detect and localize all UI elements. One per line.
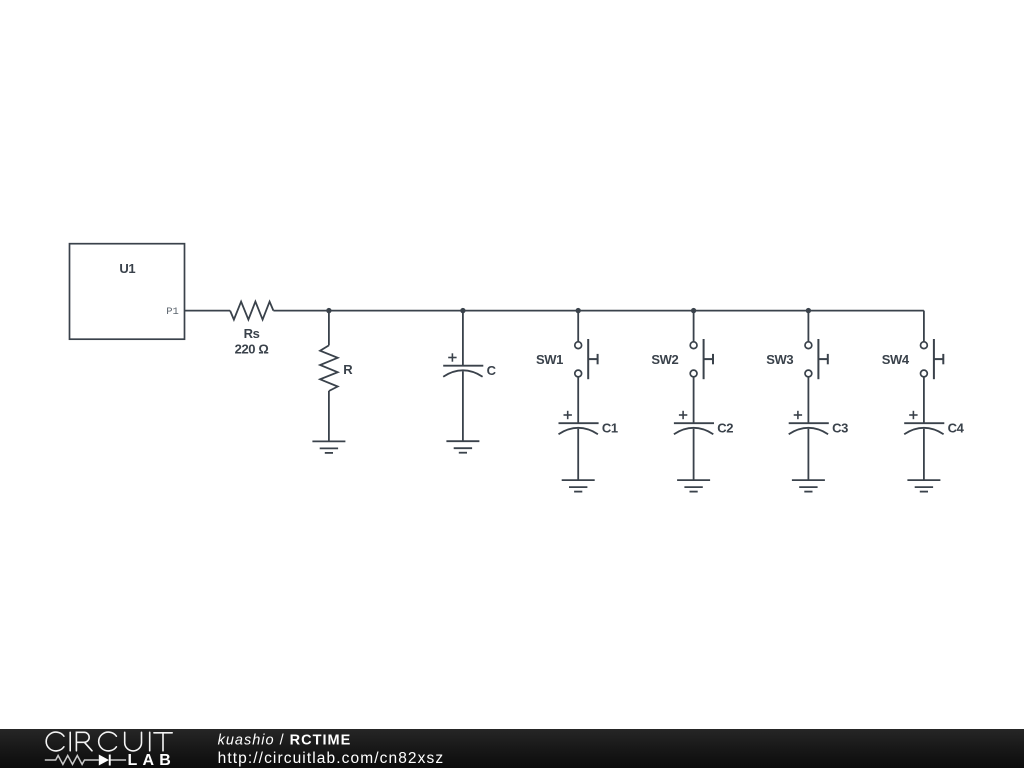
- svg-text:C1: C1: [602, 421, 618, 436]
- ground (C3 branch): [792, 480, 825, 492]
- pushbutton switch SW2: [690, 342, 697, 377]
- capacitor C1 curved bottom plate: [559, 428, 598, 434]
- svg-text:R: R: [343, 362, 353, 377]
- capacitor C2 plus sign: [679, 411, 687, 419]
- wire node SW1 to node SW2: [578, 310, 693, 312]
- wire C3 to ground: [807, 429, 809, 480]
- ground (C1 branch): [562, 480, 595, 492]
- capacitor C3 top plate: [789, 422, 829, 424]
- CircuitLab logo resistor-diode glyph: [45, 756, 126, 765]
- wire node to switch SW1: [577, 311, 579, 342]
- resistor Rs: [230, 302, 273, 320]
- junction node at R branch: [326, 308, 331, 313]
- wire SW3 to C3: [807, 377, 809, 423]
- svg-text:U1: U1: [119, 261, 135, 276]
- svg-text:C4: C4: [948, 421, 965, 436]
- wire Rs to node R: [273, 310, 329, 312]
- svg-text:Rs: Rs: [244, 326, 260, 341]
- svg-text:220 Ω: 220 Ω: [235, 342, 269, 357]
- capacitor C4 top plate: [904, 422, 944, 424]
- capacitor C3 curved bottom plate: [789, 428, 828, 434]
- svg-text:SW1: SW1: [536, 352, 563, 367]
- svg-text:http://circuitlab.com/cn82xsz: http://circuitlab.com/cn82xsz: [218, 750, 445, 767]
- wire C2 to ground: [693, 429, 695, 480]
- wire node to switch SW2: [693, 311, 695, 342]
- ground (C4 branch): [907, 480, 940, 492]
- wire node to switch SW4: [923, 311, 925, 342]
- resistor R: [320, 345, 338, 391]
- wire C to ground: [462, 371, 464, 441]
- capacitor C3 plus sign: [794, 411, 802, 419]
- svg-text:SW4: SW4: [882, 352, 910, 367]
- capacitor C1 plus sign: [564, 411, 572, 419]
- capacitor C1 top plate: [559, 422, 599, 424]
- wire SW1 to C1: [577, 377, 579, 423]
- IC U1: [70, 244, 185, 340]
- capacitor C top plate: [443, 365, 483, 367]
- capacitor C2 top plate: [674, 422, 714, 424]
- junction node at SW3 branch: [806, 308, 811, 313]
- capacitor C4 plus sign: [909, 411, 917, 419]
- wire SW2 to C2: [693, 377, 695, 423]
- capacitor C4 curved bottom plate: [904, 428, 943, 434]
- wire C4 to ground: [923, 429, 925, 480]
- wire node to switch SW3: [807, 311, 809, 342]
- wire pin P1 to Rs: [185, 310, 231, 312]
- svg-text:SW3: SW3: [766, 352, 793, 367]
- svg-text:SW2: SW2: [651, 352, 678, 367]
- junction node at SW1 branch: [576, 308, 581, 313]
- junction node at C branch: [460, 308, 465, 313]
- wire SW4 to C4: [923, 377, 925, 423]
- junction node at SW2 branch: [691, 308, 696, 313]
- wire node R to node C: [329, 310, 463, 312]
- pushbutton switch SW1: [575, 342, 582, 377]
- svg-text:C2: C2: [717, 421, 733, 436]
- wire node SW3 to SW4 corner: [808, 310, 924, 312]
- CircuitLab logo text CIRCUIT: [46, 732, 172, 751]
- wire node SW2 to node SW3: [694, 310, 809, 312]
- capacitor C plus sign: [448, 353, 456, 361]
- capacitor C2 curved bottom plate: [674, 428, 713, 434]
- wire node to resistor R: [328, 311, 330, 346]
- ground (R branch): [312, 441, 345, 453]
- svg-text:C3: C3: [832, 421, 848, 436]
- svg-text:C: C: [487, 363, 497, 378]
- ground (C branch): [446, 441, 479, 453]
- svg-text:LAB: LAB: [128, 752, 176, 768]
- wire C1 to ground: [577, 429, 579, 480]
- wire node C to node SW1: [463, 310, 578, 312]
- ground (C2 branch): [677, 480, 710, 492]
- svg-text:kuashio / RCTIME: kuashio / RCTIME: [218, 733, 352, 749]
- svg-text:P1: P1: [166, 306, 179, 318]
- pushbutton switch SW3: [805, 342, 812, 377]
- capacitor C curved bottom plate: [443, 370, 482, 376]
- wire node to capacitor C: [462, 311, 464, 366]
- pushbutton switch SW4: [921, 342, 928, 377]
- wire R to ground: [328, 391, 330, 441]
